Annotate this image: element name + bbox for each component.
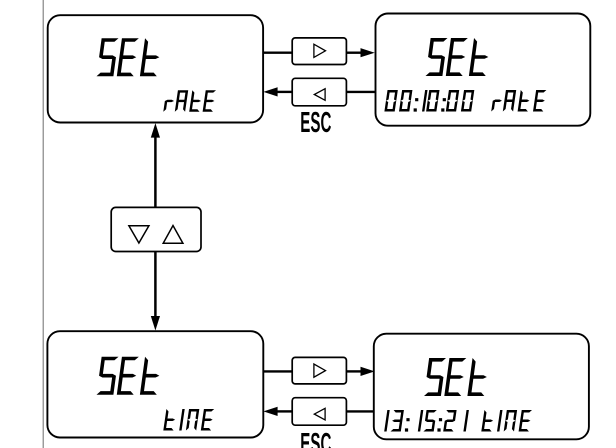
button: left-arrow ESC (bottom) bbox=[292, 398, 346, 426]
button: down/up arrows bbox=[111, 207, 201, 251]
display box TL: SET rAtE bbox=[48, 15, 263, 122]
button: right-arrow (top) bbox=[292, 38, 346, 65]
arrow: ESC/left-arrow button to TL display (top) bbox=[263, 87, 277, 96]
right-arrow glyph (top button) bbox=[314, 44, 326, 57]
7seg text "tIME" (BL display) bbox=[163, 409, 214, 431]
7seg text "SEt" (TR display) bbox=[426, 38, 489, 76]
up-triangle glyph bbox=[163, 226, 183, 244]
wire: BL display to right-arrow button (bottom) bbox=[263, 370, 292, 372]
display box BR: SET 13:15:21 tIME bbox=[374, 334, 589, 440]
button: right-arrow (bottom) bbox=[292, 357, 346, 384]
arrow: up/down button to BL display (vertical, down) bbox=[154, 252, 157, 317]
7seg text "00:10:00 rAtE" (TR display) bbox=[384, 90, 546, 112]
button: left-arrow ESC (top) bbox=[292, 78, 346, 106]
wire: BR display to left-arrow button (bottom) bbox=[347, 410, 375, 412]
arrow: right-arrow button to BR display (bottom) bbox=[347, 370, 361, 372]
7seg text "SEt" (BL display) bbox=[97, 357, 160, 395]
arrow: up/down button to TL display (vertical, up) bbox=[151, 123, 160, 138]
arrow: right-arrow button to TR display (top) bbox=[347, 52, 361, 54]
display box TR: SET 00:10:00 rAtE bbox=[376, 14, 591, 126]
wire: TR display to left-arrow button (top) bbox=[347, 91, 376, 93]
right-arrow glyph (bottom button) bbox=[314, 364, 326, 377]
left-arrow glyph (top button) bbox=[314, 89, 325, 101]
wire: TL display to right-arrow button (top) bbox=[263, 52, 292, 54]
page rule (left table border) bbox=[42, 0, 44, 448]
7seg text "rAtE" (TL display) bbox=[163, 90, 216, 112]
svg-text:ESC: ESC bbox=[300, 106, 331, 138]
display box BL: SET tIME bbox=[47, 331, 263, 437]
left-arrow glyph (bottom button) bbox=[314, 408, 325, 420]
down-triangle glyph bbox=[129, 226, 149, 243]
7seg text "SEt" (TL display) bbox=[97, 38, 160, 76]
svg-text:ESC: ESC bbox=[300, 427, 331, 448]
arrow: left-arrow button to BL display (bottom) bbox=[263, 407, 277, 416]
7seg text "13:15:21 tIME" (BR display) bbox=[384, 410, 532, 432]
7seg text "SEt" (BR display) bbox=[424, 358, 487, 396]
